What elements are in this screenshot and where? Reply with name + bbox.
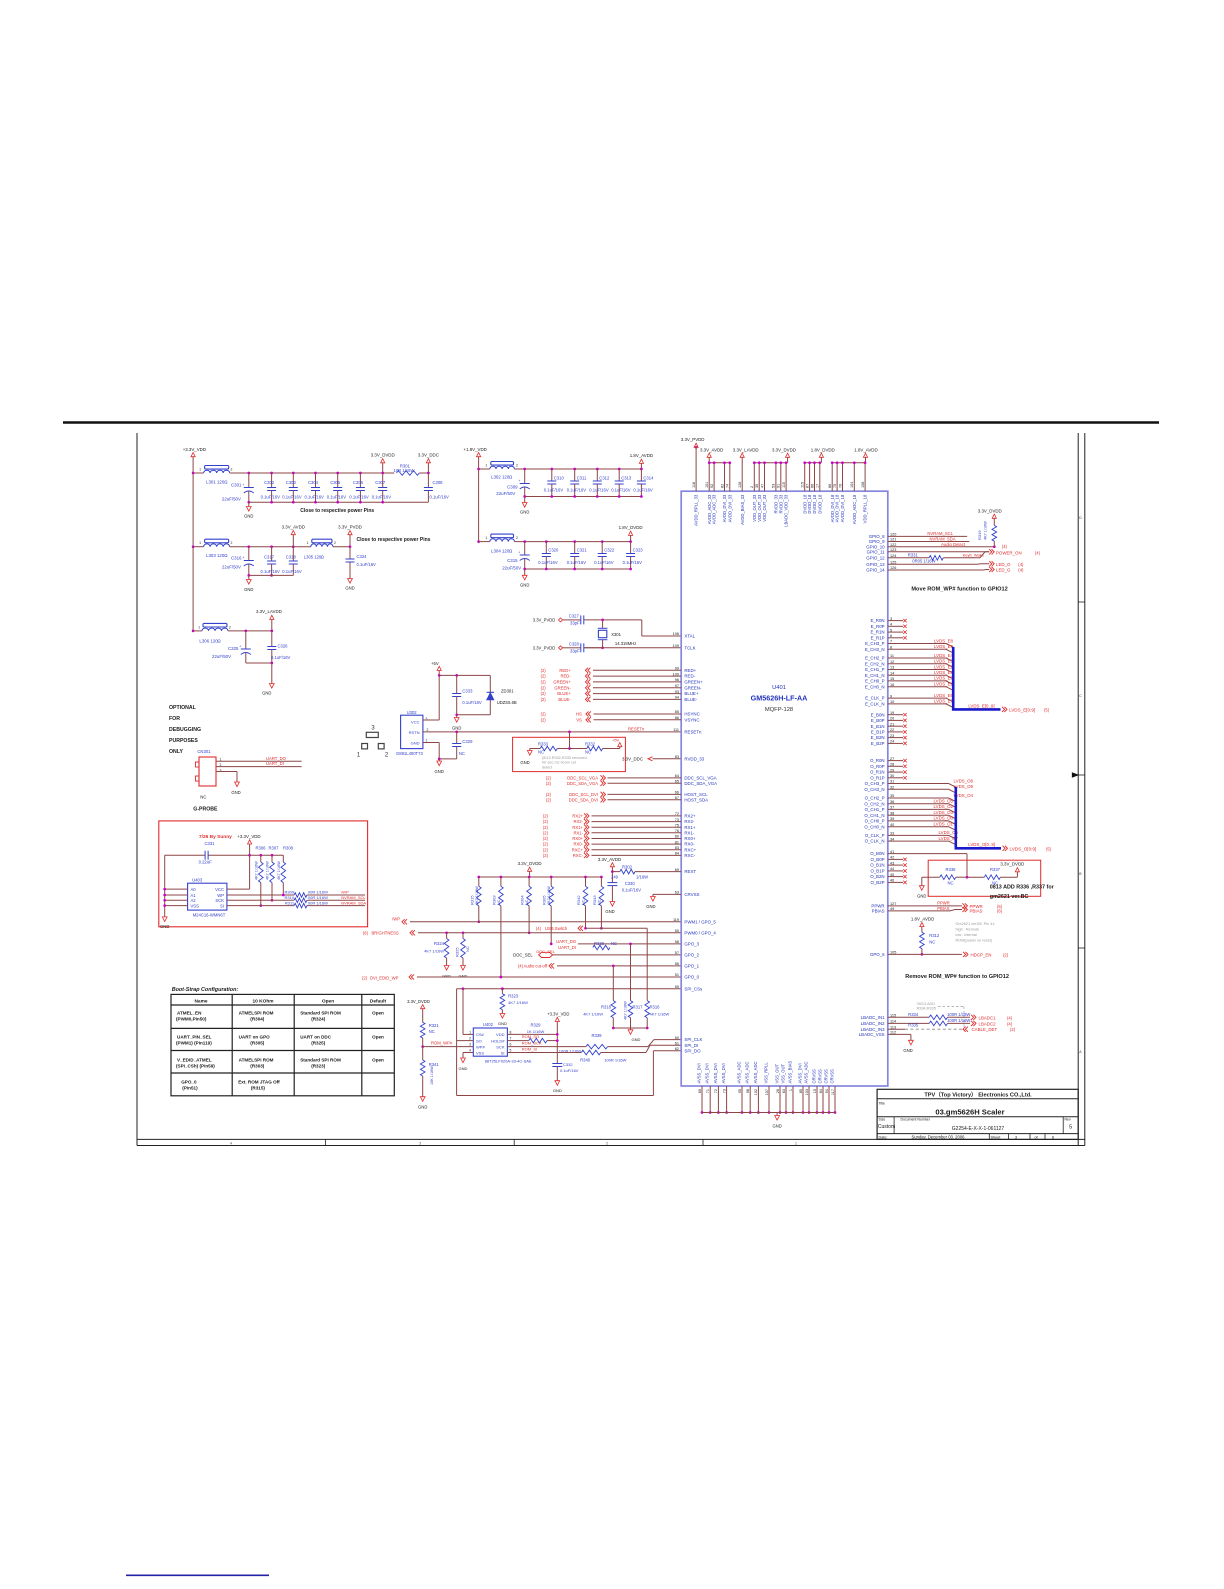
- svg-text:O_B2N: O_B2N: [870, 874, 884, 879]
- svg-text:E_CH0_N: E_CH0_N: [865, 684, 885, 689]
- svg-text:BLUE-: BLUE-: [558, 697, 571, 702]
- svg-text:4K7 1/16W: 4K7 1/16W: [624, 1001, 628, 1020]
- svg-text:PPWR: PPWR: [937, 900, 950, 905]
- wire USB drop R316: [646, 928, 648, 1000]
- svg-text:ROM_WP#: ROM_WP#: [431, 1040, 453, 1045]
- svg-text:109: 109: [673, 644, 679, 648]
- svg-text:DDC_SCL_VGA: DDC_SCL_VGA: [684, 776, 716, 781]
- resistor R315: [477, 876, 480, 879]
- svg-text:3.3V_AVDD: 3.3V_AVDD: [598, 857, 621, 862]
- svg-text:C318: C318: [286, 555, 297, 560]
- capacitor C302: [270, 472, 273, 475]
- wire eeprom left vertical: [164, 855, 166, 917]
- svg-text:(2): (2): [546, 797, 552, 802]
- wire O_B0N to R336: [888, 853, 967, 855]
- svg-text:51: 51: [675, 973, 679, 977]
- wire reset bottom rail: [457, 714, 491, 716]
- wire reset top rail: [438, 674, 441, 677]
- svg-text:LVDS_O0: LVDS_O0: [934, 816, 954, 821]
- svg-text:A2: A2: [191, 898, 197, 903]
- svg-text:AVSS_ADC: AVSS_ADC: [745, 1061, 750, 1083]
- wire O_B stub: [888, 858, 903, 860]
- svg-text:LBADC_VSS: LBADC_VSS: [859, 1032, 885, 1037]
- svg-text:POWER_ON: POWER_ON: [996, 550, 1022, 555]
- svg-text:1.8V_AVDD: 1.8V_AVDD: [911, 917, 934, 922]
- svg-text:22uF/50V: 22uF/50V: [222, 565, 241, 570]
- svg-text:1.8V_DVDD: 1.8V_DVDD: [619, 525, 643, 530]
- svg-text:33pF: 33pF: [570, 621, 580, 626]
- svg-text:RVDD_33: RVDD_33: [684, 756, 704, 761]
- svg-text:O_R0P: O_R0P: [870, 764, 884, 769]
- resistor R339: [586, 1044, 608, 1049]
- svg-text:UDZS5.6B: UDZS5.6B: [497, 700, 517, 705]
- svg-text:(6): (6): [363, 930, 369, 935]
- svg-text:RX0+: RX0+: [684, 836, 696, 841]
- wire O_R stub: [888, 771, 903, 773]
- svg-text:GPO_0: GPO_0: [684, 975, 699, 980]
- capacitor C333: [456, 675, 458, 693]
- wire E_B stub: [888, 731, 903, 733]
- svg-text:VDD: VDD: [496, 1032, 505, 1037]
- svg-text:CRVSS: CRVSS: [829, 1069, 834, 1084]
- inductor L302: [477, 468, 480, 471]
- svg-text:GND: GND: [520, 510, 529, 515]
- svg-text:R317: R317: [633, 1005, 644, 1010]
- wire LVDS_E8: [888, 644, 953, 648]
- svg-text:100R 1/16W: 100R 1/16W: [947, 1018, 970, 1023]
- svg-text:O_CH1_P: O_CH1_P: [865, 807, 885, 812]
- svg-text:R316: R316: [650, 1005, 661, 1010]
- svg-text:0.1uF/16V: 0.1uF/16V: [622, 887, 642, 892]
- svg-text:VSS: VSS: [191, 904, 200, 909]
- svg-text:0.22uF: 0.22uF: [199, 860, 212, 865]
- svg-text:R337: R337: [990, 867, 1001, 872]
- svg-text:GPIO_11: GPIO_11: [867, 549, 886, 554]
- svg-text:LVDS_O3: LVDS_O3: [934, 810, 954, 815]
- resistor R317: [630, 944, 632, 1001]
- svg-text:LVDS_E5: LVDS_E5: [934, 659, 954, 664]
- svg-text:7/26 By Sunny: 7/26 By Sunny: [199, 834, 232, 840]
- svg-text:RX2-: RX2-: [684, 819, 695, 824]
- svg-text:GND: GND: [498, 1021, 507, 1026]
- svg-text:RX2+: RX2+: [684, 814, 696, 819]
- svg-text:(R324): (R324): [311, 1017, 326, 1022]
- svg-text:Close to respective power Pins: Close to respective power Pins: [357, 537, 431, 543]
- svg-text:26: 26: [776, 1089, 780, 1093]
- svg-text:RX2+: RX2+: [572, 814, 583, 819]
- wire U403 VCC: [227, 888, 250, 890]
- svg-text:RXC-: RXC-: [684, 853, 695, 858]
- svg-text:R303: R303: [491, 895, 496, 905]
- ground reset rail: [456, 715, 458, 718]
- svg-text:00R 1/16W: 00R 1/16W: [308, 889, 328, 894]
- svg-text:Open: Open: [372, 1058, 384, 1063]
- svg-text:VSS_OUT: VSS_OUT: [774, 1064, 779, 1084]
- wire O_R stub: [888, 765, 903, 767]
- svg-text:GREEN-: GREEN-: [684, 685, 702, 690]
- svg-text:(R305): (R305): [250, 1040, 265, 1045]
- svg-text:0R05 1/16W: 0R05 1/16W: [912, 558, 935, 563]
- svg-text:PBIAS: PBIAS: [872, 909, 885, 914]
- svg-text:G891L400T73: G891L400T73: [396, 751, 423, 756]
- capacitor C328: [579, 647, 581, 649]
- svg-text:2: 2: [469, 1036, 471, 1040]
- svg-text:Sunday, December 03, 2006: Sunday, December 03, 2006: [912, 1134, 966, 1139]
- svg-text:WP#: WP#: [476, 1044, 485, 1049]
- svg-text:DDC_SDA_DVI: DDC_SDA_DVI: [569, 797, 598, 802]
- svg-text:GND: GND: [605, 909, 614, 914]
- svg-text:C308: C308: [433, 480, 444, 485]
- svg-text:50: 50: [675, 929, 679, 933]
- svg-text:E_B1P: E_B1P: [871, 730, 885, 735]
- svg-text:CS#: CS#: [476, 1032, 485, 1037]
- svg-text:LVDS_E[0:9]: LVDS_E[0:9]: [1009, 707, 1035, 712]
- resistor R306: [260, 855, 262, 862]
- test pad 1: [362, 744, 368, 749]
- capacitor C314: [640, 468, 643, 471]
- svg-text:O_CH0_N: O_CH0_N: [864, 824, 884, 829]
- svg-text:(Pin51): (Pin51): [182, 1085, 198, 1090]
- svg-text:4K7 1/16W: 4K7 1/16W: [266, 861, 270, 880]
- svg-text:0.1uF/16V: 0.1uF/16V: [567, 560, 587, 565]
- wire O_B stub: [888, 876, 903, 878]
- resistor R331: [888, 557, 929, 559]
- wire eeprom top rail: [248, 854, 251, 857]
- svg-text:0.1uF/16V: 0.1uF/16V: [633, 488, 653, 493]
- svg-text:E_B1N: E_B1N: [871, 724, 885, 729]
- svg-text:C305: C305: [330, 480, 341, 485]
- svg-text:88T25LF020A-33-4C-SAE: 88T25LF020A-33-4C-SAE: [485, 1059, 532, 1064]
- svg-text:GREEN-: GREEN-: [554, 685, 571, 690]
- svg-text:AVSS_DVI: AVSS_DVI: [797, 1063, 802, 1083]
- frame zone ticks right: [1078, 601, 1085, 603]
- resistor R305: [550, 876, 553, 879]
- svg-text:Boot-Strap Configuration:: Boot-Strap Configuration:: [172, 987, 239, 993]
- wire tclk net: [601, 646, 604, 649]
- svg-text:(R303): (R303): [250, 1063, 265, 1068]
- svg-text:RVDD_33: RVDD_33: [778, 494, 783, 513]
- svg-text:+: +: [239, 645, 241, 649]
- svg-text:0.1uF/16V: 0.1uF/16V: [349, 495, 369, 500]
- svg-text:(2): (2): [546, 792, 552, 797]
- svg-text:4K7 1/16W: 4K7 1/16W: [547, 886, 551, 905]
- resistor R304: [528, 876, 531, 879]
- svg-text:Date:: Date:: [879, 1135, 888, 1139]
- resistor R329: [507, 1040, 528, 1042]
- svg-text:Document Number: Document Number: [901, 1118, 931, 1122]
- wire LVDS_O7: [888, 841, 956, 845]
- wire LED_O: [888, 563, 989, 566]
- wire U403 WP row: [227, 894, 294, 896]
- svg-text:RX1-: RX1-: [684, 830, 695, 835]
- svg-text:0.1uF/16V: 0.1uF/16V: [544, 488, 564, 493]
- capacitor C309: [523, 468, 526, 471]
- svg-text:GND: GND: [244, 587, 253, 592]
- svg-text:(4): (4): [1018, 562, 1024, 567]
- svg-text:GND: GND: [917, 893, 926, 898]
- wire U403 SI row: [227, 905, 294, 907]
- svg-text:C317: C317: [264, 555, 275, 560]
- svg-text:L304 120: L304 120: [491, 549, 510, 554]
- svg-text:O_B1N: O_B1N: [870, 863, 884, 868]
- svg-text:100R 1/16W: 100R 1/16W: [604, 1057, 626, 1062]
- wire +1.8V_VDD vertical: [478, 457, 480, 542]
- svg-text:(2): (2): [541, 712, 547, 717]
- svg-text:0.1uF/16V: 0.1uF/16V: [462, 700, 482, 705]
- svg-text:3.3V_LAVDD: 3.3V_LAVDD: [256, 609, 282, 614]
- svg-text:NC: NC: [538, 749, 544, 754]
- svg-text:3: 3: [469, 1043, 471, 1047]
- svg-text:6: 6: [510, 1043, 512, 1047]
- svg-text:75: 75: [833, 484, 837, 488]
- svg-text:CRVSS: CRVSS: [811, 1069, 816, 1084]
- svg-text:47: 47: [760, 484, 764, 488]
- svg-text:O_CH2_N: O_CH2_N: [864, 801, 884, 806]
- wire LVDS_E6: [888, 698, 953, 702]
- svg-text:/WP: /WP: [392, 916, 400, 921]
- svg-text:SPI_DI: SPI_DI: [684, 1043, 698, 1048]
- svg-text:(2): (2): [546, 781, 552, 786]
- svg-text:117: 117: [831, 1089, 835, 1095]
- wire U302 pin1 to gnd: [423, 742, 439, 744]
- svg-text:VSS: VSS: [476, 1050, 484, 1055]
- svg-text:+3.3V_VDD: +3.3V_VDD: [183, 447, 206, 452]
- svg-text:C303: C303: [286, 480, 297, 485]
- svg-text:+: +: [242, 483, 244, 487]
- svg-text:03.gm5626H Scaler: 03.gm5626H Scaler: [935, 1107, 1004, 1116]
- svg-text:GND: GND: [345, 586, 354, 591]
- svg-text:C328: C328: [569, 641, 580, 646]
- svg-text:C315: C315: [507, 558, 518, 563]
- svg-text:LBADC_VDD_33: LBADC_VDD_33: [784, 494, 789, 527]
- svg-text:E_CH1_N: E_CH1_N: [865, 673, 885, 678]
- svg-text:3.3V_DDC: 3.3V_DDC: [622, 756, 643, 761]
- svg-text:O_B0N: O_B0N: [870, 851, 884, 856]
- svg-text:E_CH2_P: E_CH2_P: [865, 656, 885, 661]
- svg-text:C307: C307: [375, 480, 386, 485]
- wire bank1 bottom rail: [249, 501, 429, 503]
- wire E_B stub: [888, 737, 903, 739]
- op-amp U302 reset ic: [401, 715, 423, 748]
- svg-text:VDD_RPLL_18: VDD_RPLL_18: [863, 494, 868, 523]
- resistor R303: [500, 876, 503, 879]
- svg-text:4: 4: [230, 1141, 232, 1145]
- svg-text:128: 128: [738, 482, 742, 488]
- svg-text:GND: GND: [411, 740, 420, 745]
- svg-text:L306 120: L306 120: [199, 638, 218, 643]
- svg-text:2: 2: [516, 464, 518, 468]
- capacitor C305: [336, 472, 339, 475]
- svg-text:91: 91: [777, 484, 781, 488]
- svg-text:HOST_SDA: HOST_SDA: [684, 797, 708, 802]
- svg-text:R339: R339: [592, 1033, 603, 1038]
- svg-text:0.1uF/16V: 0.1uF/16V: [589, 488, 609, 493]
- svg-text:low : internal: low : internal: [956, 933, 977, 937]
- svg-text:92: 92: [710, 484, 714, 488]
- inductor L304: [477, 540, 480, 543]
- bus LVDS_O: [956, 787, 1001, 848]
- option box EEPROM: [159, 821, 368, 927]
- svg-text:E_CH3_N: E_CH3_N: [865, 647, 885, 652]
- capacitor C332: [552, 1063, 562, 1065]
- svg-text:UART_DO: UART_DO: [266, 756, 287, 761]
- svg-text:NC: NC: [497, 899, 501, 905]
- wire LVDS_O6: [888, 835, 956, 839]
- svg-text:for sec.mc bcom cut: for sec.mc bcom cut: [542, 761, 577, 765]
- resistor R332: [570, 748, 587, 750]
- svg-text:GND: GND: [903, 1048, 912, 1053]
- resistor R308: [282, 855, 284, 862]
- svg-text:(PWM0,Pin50): (PWM0,Pin50): [176, 1017, 207, 1022]
- svg-text:103: 103: [805, 1089, 809, 1095]
- svg-text:0.1uF/16V: 0.1uF/16V: [282, 495, 302, 500]
- svg-text:GND: GND: [520, 582, 529, 587]
- svg-text:0.1uF/16V: 0.1uF/16V: [567, 488, 587, 493]
- svg-text:E_R0P: E_R0P: [871, 624, 885, 629]
- svg-text:LVDS_E3: LVDS_E3: [934, 670, 954, 675]
- capacitor C327: [579, 619, 581, 621]
- svg-text:115: 115: [782, 482, 786, 488]
- capacitor C317: [270, 545, 273, 548]
- capacitor C301: [247, 472, 250, 475]
- svg-text:57: 57: [675, 951, 679, 955]
- svg-text:83: 83: [675, 755, 679, 759]
- svg-text:Ω: Ω: [321, 555, 324, 560]
- svg-text:O_CLK_N: O_CLK_N: [865, 839, 885, 844]
- svg-text:C311: C311: [577, 476, 587, 481]
- wire CN301 gnd: [216, 771, 237, 773]
- wire O_R stub: [888, 777, 903, 779]
- svg-text:GPO_2: GPO_2: [684, 953, 699, 958]
- svg-text:M24C16-WMN6T: M24C16-WMN6T: [193, 913, 226, 918]
- svg-text:U302: U302: [407, 710, 418, 715]
- svg-text:NC: NC: [429, 1029, 435, 1034]
- svg-text:C316: C316: [231, 556, 242, 561]
- svg-text:ATMELSPI ROM: ATMELSPI ROM: [239, 1011, 274, 1016]
- svg-text:00R 1/16W: 00R 1/16W: [308, 895, 328, 900]
- svg-text:Open: Open: [322, 999, 334, 1005]
- svg-text:X301: X301: [611, 632, 621, 637]
- svg-text:R307: R307: [269, 845, 280, 850]
- svg-text:3.3V_PVDD: 3.3V_PVDD: [681, 437, 705, 442]
- ground rom resistors: [630, 1028, 632, 1030]
- svg-text:ROM(power on reset): ROM(power on reset): [956, 939, 993, 943]
- title block: [877, 1089, 1078, 1139]
- svg-text:CRVSS: CRVSS: [817, 1069, 822, 1084]
- svg-text:(R304): (R304): [250, 1017, 265, 1022]
- ground bank3: [247, 574, 250, 577]
- svg-text:(2): (2): [543, 819, 549, 824]
- svg-text:GND: GND: [632, 1037, 641, 1042]
- svg-text:R304: R304: [520, 895, 525, 905]
- wire LED_G: [888, 569, 989, 572]
- svg-text:Gm2621 ver.BC Pin 41:: Gm2621 ver.BC Pin 41:: [956, 922, 996, 926]
- ic U402 spi rom: [473, 1028, 507, 1056]
- wire LVDS_O4: [888, 798, 956, 802]
- svg-text:+: +: [518, 551, 520, 555]
- svg-text:10R 1/16W: 10R 1/16W: [394, 468, 415, 473]
- wire NVRAM_SDA: [888, 541, 970, 543]
- resistor R301: [397, 471, 420, 476]
- wire LVDS_O9: [888, 789, 956, 793]
- svg-text:GPIO_13: GPIO_13: [866, 562, 885, 567]
- net LVDS_E[0:9] connector: [1002, 707, 1005, 712]
- svg-text:C301: C301: [231, 483, 242, 488]
- svg-text:+: +: [518, 479, 520, 483]
- ground R333: [529, 749, 531, 751]
- wire L305 to C324: [333, 546, 350, 548]
- svg-text:NC: NC: [200, 795, 206, 800]
- svg-text:62: 62: [675, 1047, 679, 1051]
- svg-text:VSYNC: VSYNC: [684, 717, 699, 722]
- svg-text:74: 74: [726, 484, 730, 488]
- wire GPO_6 HDCP_EN: [888, 953, 962, 955]
- svg-text:GND: GND: [244, 514, 253, 519]
- svg-text:(4): (4): [536, 926, 542, 931]
- svg-text:NC: NC: [459, 751, 465, 756]
- svg-text:BLUE+: BLUE+: [684, 691, 698, 696]
- frame zone ticks bottom: [325, 1139, 327, 1145]
- svg-text:AVDD_ADC_33: AVDD_ADC_33: [712, 494, 717, 524]
- svg-text:0.1uF/16V: 0.1uF/16V: [594, 560, 614, 565]
- svg-text:AVSS_DVI: AVSS_DVI: [705, 1063, 710, 1083]
- svg-text:Open: Open: [372, 1011, 384, 1016]
- svg-text:/WP: /WP: [341, 889, 349, 894]
- svg-text:(2): (2): [541, 674, 547, 679]
- svg-text:(2): (2): [546, 776, 552, 781]
- svg-text:3.3V_AVDD: 3.3V_AVDD: [282, 524, 305, 529]
- svg-text:L305 120: L305 120: [304, 555, 322, 560]
- svg-text:GND: GND: [160, 924, 169, 929]
- svg-text:WP: WP: [217, 893, 224, 898]
- svg-text:3.3V_LAVDD: 3.3V_LAVDD: [733, 447, 759, 452]
- svg-text:E_B2N: E_B2N: [871, 735, 885, 740]
- svg-text:(2): (2): [541, 717, 547, 722]
- svg-text:U403: U403: [192, 877, 203, 882]
- svg-text:L303 120: L303 120: [206, 553, 225, 558]
- inductor L305: [312, 539, 332, 543]
- capacitor C312: [596, 468, 599, 471]
- svg-text:1/16W: 1/16W: [636, 874, 648, 879]
- svg-text:(2): (2): [543, 836, 549, 841]
- svg-text:VCC: VCC: [215, 887, 224, 892]
- svg-text:SCK: SCK: [215, 898, 224, 903]
- sheet border frame: [136, 433, 138, 1146]
- svg-text:1: 1: [220, 757, 222, 761]
- svg-text:C332: C332: [563, 1062, 573, 1067]
- wire LVDS_E4: [888, 658, 953, 662]
- svg-text:DDC_SDA_VGA: DDC_SDA_VGA: [684, 781, 717, 786]
- svg-text:ROM_SCK: ROM_SCK: [522, 1040, 542, 1045]
- svg-text:R341: R341: [429, 1062, 440, 1067]
- wire +5V vertical: [438, 671, 440, 721]
- wire bank4 top rail: [515, 541, 631, 543]
- ground U302: [438, 759, 440, 761]
- svg-text:AVDD_DVI_18: AVDD_DVI_18: [835, 494, 840, 522]
- wire bank top rail: [479, 876, 602, 878]
- wire LVDS_E7: [888, 704, 953, 708]
- svg-text:VSS_OUT: VSS_OUT: [780, 1064, 785, 1084]
- svg-text:(2): (2): [541, 697, 547, 702]
- wire LVDS_O5: [888, 804, 956, 808]
- svg-text:PWM0 / GPO_4: PWM0 / GPO_4: [684, 930, 716, 935]
- svg-text:E_B0N: E_B0N: [871, 712, 885, 717]
- svg-text:14.318MHz: 14.318MHz: [615, 641, 636, 646]
- wire NVRAM_SCL: [888, 535, 967, 537]
- svg-text:R306: R306: [256, 845, 267, 850]
- svg-text:102: 102: [754, 1089, 758, 1095]
- svg-text:GND: GND: [459, 1066, 468, 1071]
